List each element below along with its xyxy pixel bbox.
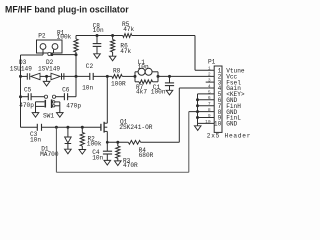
resistor R6 [111, 34, 114, 37]
svg-text:C2: C2 [86, 63, 94, 70]
ground varactor midpoint [46, 76, 48, 81]
svg-text:470p: 470p [66, 102, 81, 109]
node D1 top [66, 126, 69, 129]
node left bus / C5 row [19, 95, 22, 98]
capacitor C6 [56, 96, 65, 98]
node bus pin7 [196, 104, 199, 107]
svg-text:9: 9 [208, 113, 211, 119]
wire source row [107, 141, 128, 143]
connector P1 [214, 66, 222, 132]
svg-text:C5: C5 [24, 86, 32, 93]
capacitor C4 [106, 142, 108, 151]
svg-text:MF/HF band plug-in oscillator: MF/HF band plug-in oscillator [5, 5, 129, 15]
capacitor C8 [96, 34, 99, 37]
capacitor C3 [36, 124, 38, 131]
ground GND bus [197, 123, 199, 125]
wire L1 node to pin2 Vcc [158, 75, 214, 77]
node R1 bottom / P2 junction [75, 53, 78, 56]
wire return to pin8 [189, 111, 214, 113]
wire P2 right pin to R1 node [53, 50, 55, 54]
node R3 top [116, 141, 119, 144]
wire gate row [42, 126, 101, 128]
svg-text:1SU149: 1SU149 [10, 65, 32, 72]
node gate return drop [55, 126, 58, 129]
ground R3 [115, 161, 122, 166]
resistor R2 [81, 127, 83, 132]
svg-text:1SV149: 1SV149 [38, 65, 60, 72]
resistor R5 [123, 34, 132, 38]
wire P2 left pin to left bus [42, 50, 44, 55]
wire R4 to pin4 riser [141, 141, 180, 143]
svg-text:7: 7 [208, 101, 211, 107]
wire varactor row [21, 75, 28, 77]
svg-text:10: 10 [214, 121, 222, 128]
node varactor midpoint [45, 75, 48, 78]
node L1 right [157, 75, 160, 78]
pin 6 GND [198, 99, 215, 101]
wire gate return bottom [55, 127, 57, 172]
diode D1 MA700 [67, 127, 69, 137]
wire source drop [106, 131, 108, 142]
svg-text:680R: 680R [139, 152, 154, 159]
node R2 top [81, 126, 84, 129]
pin 3 Fsel [206, 81, 215, 83]
switch SW1 [44, 95, 47, 98]
capacitor C1 [168, 75, 171, 78]
svg-text:100R: 100R [111, 81, 126, 88]
resistor R7 [134, 76, 136, 81]
svg-text:3: 3 [208, 78, 211, 84]
pin 9 FinL [198, 117, 215, 119]
svg-text:10n: 10n [138, 64, 149, 71]
svg-text:470R: 470R [123, 162, 138, 169]
wire C6 to tank top [75, 76, 77, 96]
svg-text:4k7: 4k7 [136, 89, 147, 96]
svg-text:SW1: SW1 [43, 112, 54, 119]
resistor R8 [112, 75, 122, 79]
svg-text:4: 4 [208, 83, 211, 89]
svg-text:P1: P1 [208, 59, 216, 66]
svg-text:100n: 100n [151, 89, 166, 96]
svg-text:GND: GND [226, 121, 237, 128]
svg-text:8: 8 [208, 107, 211, 113]
ground C4 [104, 160, 111, 165]
varactor diode D3 1SU149 [26, 73, 28, 80]
svg-text:2: 2 [208, 72, 211, 78]
wire GND bus [197, 94, 199, 124]
svg-text:2SK241-OR: 2SK241-OR [119, 124, 152, 131]
wire left bus [20, 55, 22, 127]
svg-text:10: 10 [205, 119, 211, 125]
svg-text:10n: 10n [82, 85, 93, 92]
node left bus / varactor row [19, 75, 22, 78]
capacitor C2 [89, 73, 91, 80]
inductor L1 [134, 75, 137, 78]
ground SW1 left [32, 113, 39, 118]
svg-text:47k: 47k [123, 26, 134, 33]
node bus pin8 [196, 110, 199, 113]
wire drain riser [106, 76, 108, 123]
varactor diode D2 1SV149 [51, 73, 60, 80]
ground R6 [109, 56, 116, 61]
svg-text:6: 6 [208, 95, 211, 101]
svg-text:1: 1 [208, 66, 211, 72]
pin 7 FinH [198, 105, 215, 107]
pin 10 GND [198, 122, 215, 124]
ground C8 [94, 54, 101, 59]
svg-text:C6: C6 [62, 86, 70, 93]
svg-text:100k: 100k [87, 141, 102, 148]
svg-text:2x5 Header: 2x5 Header [207, 133, 251, 140]
pin 5 <KEY> [198, 93, 215, 95]
svg-text:10n: 10n [30, 136, 41, 143]
resistor R1 [75, 36, 77, 40]
resistor R3 [117, 142, 119, 146]
svg-text:P2: P2 [38, 33, 46, 40]
svg-text:5: 5 [208, 89, 211, 95]
svg-text:10n: 10n [92, 154, 103, 161]
node bus pin9 [196, 116, 199, 119]
wire left bus corner to C3 [21, 126, 38, 128]
ground SW1 right [57, 113, 64, 118]
node drain junction [106, 75, 109, 78]
wire top rail [76, 35, 123, 37]
svg-text:10n: 10n [93, 27, 104, 34]
ground D1 [65, 149, 72, 154]
capacitor C5 [21, 96, 29, 98]
svg-text:47k: 47k [120, 48, 131, 55]
svg-text:R8: R8 [113, 68, 121, 75]
resistor R4 [128, 140, 140, 144]
node tank top [75, 75, 78, 78]
svg-text:470p: 470p [19, 102, 34, 109]
ground R2 [79, 150, 86, 155]
connector P2 [37, 40, 63, 53]
ground C1 [166, 90, 173, 95]
node bus pin6 [196, 98, 199, 101]
transistor Q1 2SK241-OR [100, 124, 102, 131]
wire rail to pin1 [194, 36, 196, 71]
